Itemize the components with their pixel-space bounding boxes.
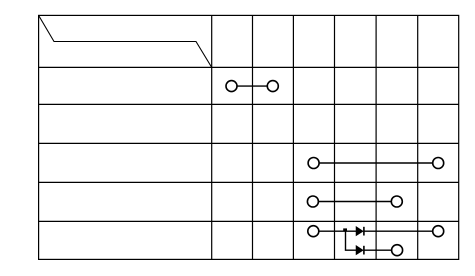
wire diode V2 to E1 <box>365 249 392 251</box>
contact terminal C1 <box>307 196 318 207</box>
wire A1-A2 <box>237 85 267 87</box>
junction node <box>343 228 347 231</box>
column line 6 <box>417 15 419 259</box>
diode V2 <box>356 246 364 255</box>
column line 2 <box>252 15 254 259</box>
contact terminal A2 <box>267 81 278 92</box>
wire D1 to junction <box>319 230 357 232</box>
column line 5 <box>375 15 377 259</box>
contact terminal B2 <box>433 158 444 169</box>
wire B1-B2 <box>319 162 433 164</box>
contact terminal D1 <box>308 226 319 237</box>
contact terminal D2 <box>433 226 444 237</box>
column line 3 <box>292 15 294 259</box>
contact terminal A1 <box>226 81 237 92</box>
row line 2 <box>39 103 459 105</box>
header diagonal divider <box>39 15 212 67</box>
contact terminal C2 <box>391 196 402 207</box>
diode V1 <box>356 227 364 236</box>
wire junction drop <box>346 231 357 250</box>
wire diode V1 to D2 <box>365 230 433 232</box>
wire C1-C2 <box>318 201 391 203</box>
table outer border <box>39 15 459 259</box>
row line 5 <box>39 220 459 222</box>
column line 1 <box>211 15 213 259</box>
row line 4 <box>39 181 459 183</box>
row line 3 <box>39 142 459 144</box>
contact terminal E1 <box>392 245 403 256</box>
contact terminal B1 <box>308 158 319 169</box>
column line 4 <box>334 15 336 259</box>
row line 1 <box>39 66 459 68</box>
